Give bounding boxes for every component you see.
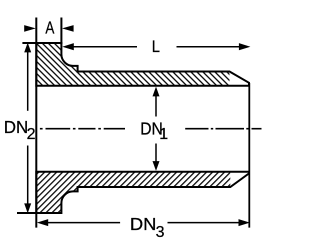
svg-text:3: 3 bbox=[156, 224, 165, 241]
svg-text:2: 2 bbox=[27, 126, 36, 143]
svg-text:DN: DN bbox=[130, 214, 157, 234]
svg-text:L: L bbox=[152, 38, 160, 56]
svg-text:DN: DN bbox=[4, 117, 29, 137]
svg-text:A: A bbox=[45, 18, 54, 38]
svg-text:1: 1 bbox=[159, 126, 168, 143]
